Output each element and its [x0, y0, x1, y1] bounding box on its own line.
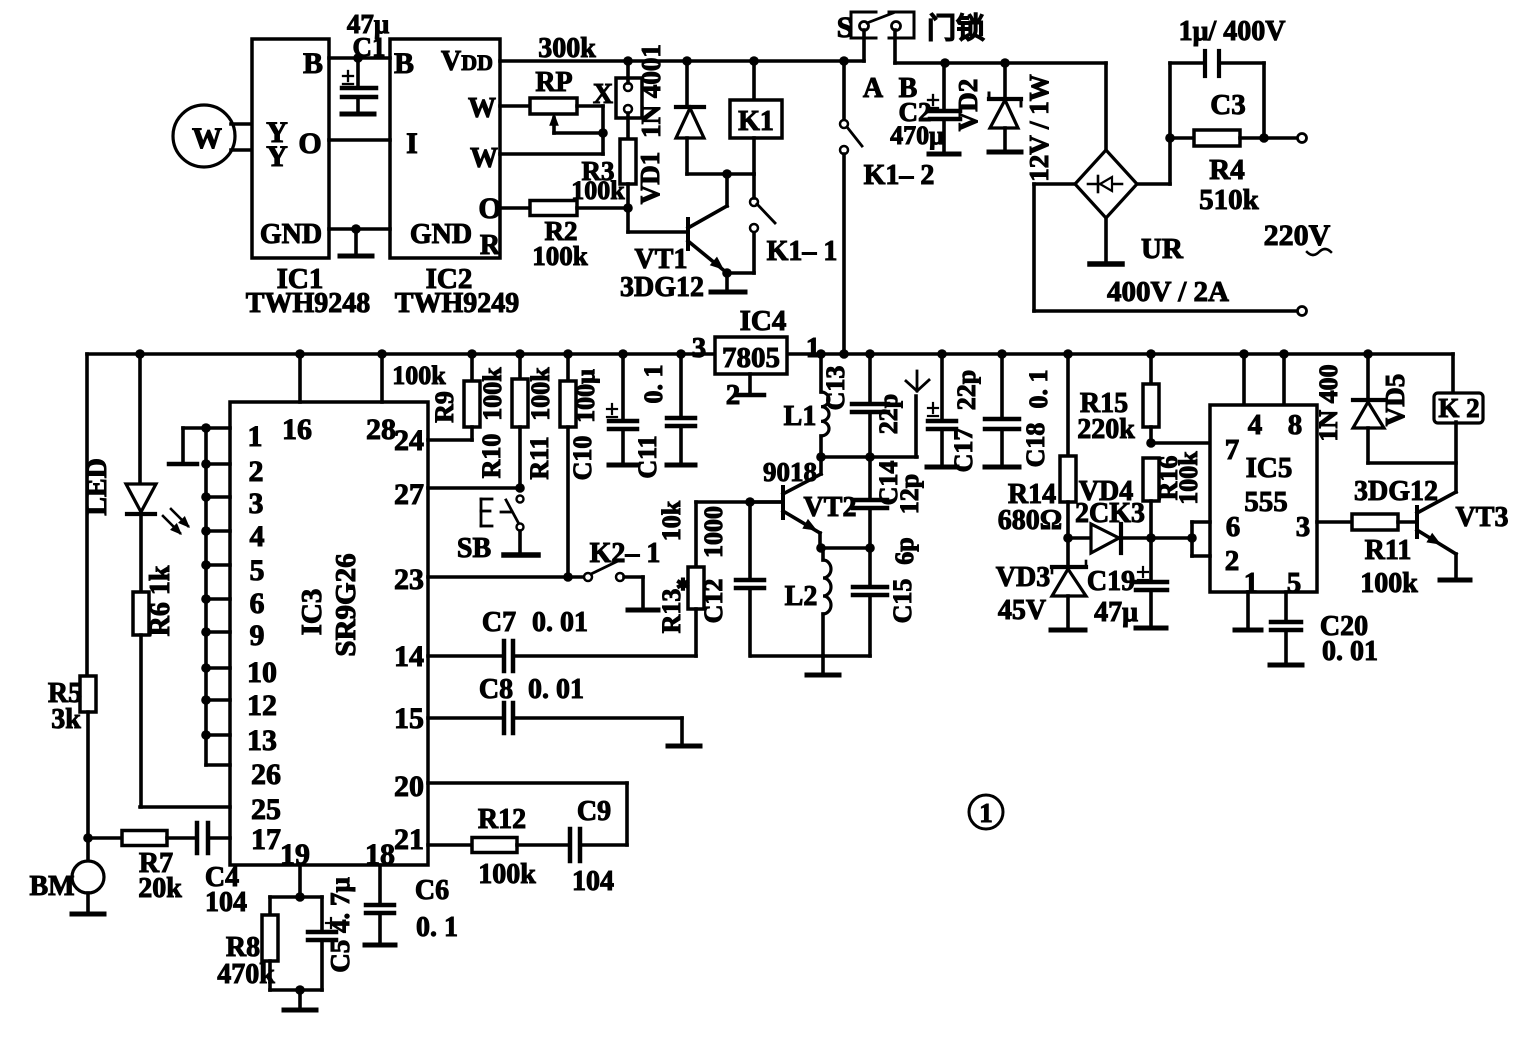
svg-text:VD5: VD5: [1380, 374, 1410, 427]
svg-text:47μ: 47μ: [1094, 597, 1138, 628]
svg-text:0. 01: 0. 01: [528, 674, 584, 705]
svg-text:C3: C3: [1210, 89, 1245, 121]
svg-text:100k: 100k: [1174, 451, 1203, 505]
svg-text:220k: 220k: [1077, 414, 1135, 445]
svg-text:K1– 2: K1– 2: [864, 160, 935, 191]
svg-text:C8: C8: [479, 674, 513, 705]
svg-text:L2: L2: [785, 581, 818, 612]
svg-text:W: W: [192, 122, 222, 155]
svg-text:Y: Y: [266, 140, 288, 173]
svg-text:5: 5: [1287, 567, 1302, 599]
svg-text:10: 10: [247, 656, 277, 689]
svg-text:K1– 1: K1– 1: [767, 236, 838, 267]
svg-text:R11: R11: [525, 436, 554, 479]
svg-text:20k: 20k: [138, 873, 182, 904]
svg-text:104: 104: [205, 887, 247, 918]
svg-text:C10: C10: [568, 436, 597, 481]
svg-text:12V / 1W: 12V / 1W: [1024, 74, 1054, 182]
svg-text:VDD: VDD: [441, 46, 493, 77]
svg-text:10k: 10k: [657, 500, 686, 541]
svg-text:9: 9: [250, 619, 265, 652]
svg-text:C19: C19: [1087, 566, 1135, 597]
svg-text:R4: R4: [1209, 154, 1244, 186]
svg-text:L1: L1: [784, 401, 817, 432]
svg-text:1μ/ 400V: 1μ/ 400V: [1179, 16, 1286, 47]
svg-text:C17: C17: [949, 428, 978, 473]
svg-text:3: 3: [1296, 511, 1311, 543]
svg-text:25: 25: [251, 793, 281, 826]
svg-text:28: 28: [366, 413, 396, 446]
svg-text:470k: 470k: [217, 959, 275, 990]
svg-text:3: 3: [249, 487, 264, 520]
svg-text:C5 4. 7μ: C5 4. 7μ: [325, 877, 355, 973]
svg-text:26: 26: [251, 758, 281, 791]
svg-text:R10: R10: [477, 434, 506, 479]
svg-text:O: O: [478, 192, 501, 225]
svg-text:R6 1k: R6 1k: [145, 565, 176, 636]
svg-text:门锁: 门锁: [927, 12, 985, 45]
svg-text:100k: 100k: [1360, 568, 1418, 599]
svg-text:R13: R13: [657, 589, 686, 634]
svg-text:4: 4: [250, 520, 265, 553]
svg-text:K 2: K 2: [1438, 393, 1479, 423]
svg-text:100k: 100k: [392, 361, 446, 390]
svg-text:2: 2: [249, 455, 264, 488]
svg-text:5: 5: [250, 554, 265, 587]
svg-text:21: 21: [394, 823, 424, 856]
svg-text:VD3: VD3: [996, 562, 1050, 593]
svg-text:C13: C13: [821, 366, 850, 411]
svg-text:16: 16: [282, 413, 312, 446]
svg-text:IC4: IC4: [740, 305, 787, 337]
svg-text:C6: C6: [415, 875, 449, 906]
svg-text:K1: K1: [738, 106, 774, 137]
svg-text:23: 23: [394, 563, 424, 596]
svg-text:0. 01: 0. 01: [532, 607, 588, 638]
svg-text:GND: GND: [410, 219, 472, 250]
svg-text:6: 6: [250, 587, 265, 620]
svg-text:I: I: [406, 127, 418, 160]
svg-text:R11: R11: [1365, 535, 1412, 566]
svg-text:100k: 100k: [478, 859, 536, 890]
svg-text:IC3: IC3: [296, 589, 328, 636]
svg-text:1: 1: [1244, 567, 1259, 599]
svg-text:14: 14: [394, 640, 424, 673]
svg-text:TWH9249: TWH9249: [395, 288, 519, 319]
svg-text:1N 400: 1N 400: [1314, 364, 1343, 441]
svg-text:0. 01: 0. 01: [1322, 636, 1378, 667]
svg-text:6p: 6p: [890, 537, 919, 564]
svg-text:S: S: [837, 11, 854, 44]
svg-text:19: 19: [280, 838, 310, 871]
svg-text:100k: 100k: [571, 176, 625, 205]
svg-text:R9: R9: [430, 391, 459, 423]
svg-text:3k: 3k: [51, 704, 81, 735]
svg-text:4: 4: [1248, 409, 1263, 441]
svg-text:24: 24: [394, 424, 424, 457]
svg-text:12: 12: [247, 689, 277, 722]
svg-text:C12: C12: [699, 579, 728, 624]
svg-text:VD2: VD2: [953, 79, 983, 132]
svg-text:C11: C11: [633, 435, 662, 478]
svg-text:3DG12: 3DG12: [620, 272, 704, 303]
svg-text:1000: 1000: [699, 506, 728, 558]
svg-text:B: B: [303, 47, 323, 80]
svg-text:22p: 22p: [874, 394, 903, 434]
svg-text:VT1: VT1: [635, 244, 688, 275]
svg-text:555: 555: [1244, 486, 1288, 518]
svg-text:20: 20: [394, 770, 424, 803]
svg-text:SB: SB: [457, 533, 491, 564]
svg-text:510k: 510k: [1199, 184, 1260, 216]
svg-text:104: 104: [572, 866, 614, 897]
svg-text:13: 13: [247, 724, 277, 757]
svg-text:2CK3: 2CK3: [1075, 498, 1145, 529]
svg-text:1N 4001: 1N 4001: [636, 44, 666, 138]
svg-text:K2– 1: K2– 1: [590, 538, 661, 569]
svg-text:GND: GND: [260, 219, 322, 250]
svg-text:C15: C15: [888, 579, 917, 624]
svg-text:100μ: 100μ: [571, 369, 600, 423]
svg-text:470μ: 470μ: [890, 121, 944, 150]
svg-text:100k: 100k: [526, 367, 555, 421]
svg-text:1: 1: [248, 420, 263, 453]
svg-text:C18: C18: [1021, 423, 1050, 468]
svg-text:1: 1: [806, 332, 821, 364]
svg-text:C1: C1: [353, 32, 386, 62]
svg-text:RP: RP: [535, 67, 572, 98]
svg-text:100k: 100k: [532, 241, 588, 271]
svg-text:6: 6: [1226, 511, 1241, 543]
svg-text:IC5: IC5: [1246, 452, 1293, 484]
svg-text:9018: 9018: [763, 457, 817, 487]
svg-text:R: R: [480, 230, 501, 261]
svg-text:8: 8: [1288, 409, 1303, 441]
svg-text:17: 17: [251, 823, 281, 856]
svg-text:VT3: VT3: [1456, 502, 1509, 533]
svg-text:O: O: [298, 127, 321, 160]
svg-text:100k: 100k: [478, 367, 507, 421]
svg-text:1: 1: [979, 798, 993, 828]
svg-text:W: W: [470, 143, 498, 174]
svg-text:12p: 12p: [895, 474, 924, 514]
svg-text:15: 15: [394, 702, 424, 735]
svg-text:X: X: [593, 79, 613, 110]
svg-text:0. 1: 0. 1: [1024, 370, 1053, 409]
svg-text:A: A: [863, 73, 884, 104]
svg-text:400V / 2A: 400V / 2A: [1107, 276, 1229, 308]
svg-text:C9: C9: [577, 796, 611, 827]
svg-text:45V: 45V: [998, 595, 1046, 626]
svg-text:7805: 7805: [722, 342, 780, 374]
svg-text:680Ω: 680Ω: [998, 505, 1062, 536]
svg-text:R12: R12: [478, 804, 526, 835]
svg-text:B: B: [394, 47, 414, 80]
svg-text:7: 7: [1225, 434, 1240, 466]
svg-text:VD1: VD1: [635, 152, 665, 205]
svg-text:0. 1: 0. 1: [416, 912, 458, 943]
svg-text:UR: UR: [1141, 233, 1184, 265]
svg-text:0. 1: 0. 1: [639, 365, 668, 404]
svg-text:TWH9248: TWH9248: [246, 288, 370, 319]
svg-text:W: W: [468, 93, 496, 124]
svg-text:27: 27: [394, 478, 424, 511]
svg-text:22p: 22p: [952, 370, 981, 410]
svg-text:BM: BM: [29, 871, 74, 902]
svg-text:220V: 220V: [1264, 219, 1331, 252]
svg-text:C7: C7: [482, 607, 516, 638]
svg-text:3: 3: [692, 332, 707, 364]
svg-text:VT2: VT2: [804, 492, 857, 523]
svg-text:SR9G26: SR9G26: [330, 553, 362, 656]
svg-text:3DG12: 3DG12: [1354, 476, 1438, 507]
svg-text:2: 2: [1225, 545, 1240, 577]
